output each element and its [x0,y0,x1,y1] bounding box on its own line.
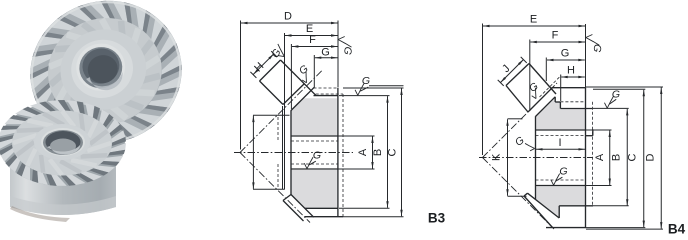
bottom gear teeth ring [0,102,125,186]
B3 hidden root heel line [314,87,338,89]
B4 bore top line [536,129,586,131]
B3 pitch cone line lower [240,153,310,223]
B4 bore ext bottom [586,185,612,187]
B3 pitch diameter dimension [252,116,254,189]
B4 dimension F [530,41,585,43]
B4 section fill upper [536,98,585,129]
B3 tip heel ext right [343,87,404,89]
top gear bore [71,38,130,95]
B4 extension G left [545,58,547,82]
B3 tooth tip line [260,60,281,81]
B4 tooth tip line [506,64,529,86]
B4 hub shoulder [555,101,560,103]
B4 hidden hub right face [592,102,594,206]
B3 hidden tip heel line [316,93,343,95]
B3 back cone line [291,87,314,110]
svg-text:G: G [321,46,330,58]
B4 dimension C [643,90,645,227]
B4 dimension J [501,60,524,83]
B3 pitch cone line upper [240,71,322,153]
B4 top face [552,87,586,89]
B3 extension apex [240,21,242,150]
svg-text:B3: B3 [428,211,446,226]
B3 hub left face [290,110,292,195]
svg-text:F: F [552,30,559,42]
svg-text:D: D [645,153,657,161]
B3 finish mark bore [304,157,313,169]
B3 right face [337,88,339,217]
B4 hub bottom face [559,205,593,207]
B3 hidden bore line lower [291,163,338,165]
B4 shoulder stub upper [554,97,556,102]
B3 lower back cone line [291,195,314,218]
svg-text:B: B [372,149,384,156]
B3 section fill upper [292,98,337,135]
B3 pitch ext bottom [253,188,285,190]
B3 toe face [260,81,284,105]
B4 finish mark tooth flank [529,88,540,100]
B4 extension H left [560,75,562,102]
B4 bore ext top [586,129,612,131]
B4 toe face [506,86,528,113]
B4 axis centerline [479,157,593,159]
B3 root line [283,84,305,105]
B4 finish mark hub top [604,97,613,109]
B3 extension G left [313,55,315,88]
B4 dimension D [660,88,662,229]
B3 bottom root face [305,207,339,209]
B3 bottom tip face [305,216,344,218]
svg-text:A: A [357,148,369,156]
B4 lower step vertical [558,206,560,218]
B4 pitch cone line upper [483,83,558,158]
B4 hidden bore line upper [536,135,586,137]
B3 bore ext bottom [339,168,375,170]
B3 bore top line [291,135,338,137]
B4 gear left face [535,116,537,199]
B4 extension apex [482,24,484,156]
B3 dimension C [401,89,403,217]
B3 axis centerline [234,152,353,154]
B4 hub bottom ext right [593,205,629,207]
B4 finish mark bore [551,174,560,186]
B3 hidden bore end upper [277,117,279,141]
B3 dimension G top [315,57,338,59]
B3 drawing: miter gear section [234,11,446,226]
B4 hub top ext right [593,107,629,109]
B4 tip heel ext right [586,86,663,88]
B3 top face [314,95,339,97]
svg-text:H: H [567,65,575,77]
B3 finish mark tooth flank [300,72,311,84]
B4 finish mark hub left [525,143,535,150]
B4 back cone line [536,97,556,117]
B4 root heel ext right [593,88,645,90]
svg-text:G: G [559,166,567,178]
B4 bottom tip ext right [586,227,645,229]
B4 right face ext [585,24,587,88]
B4 bottom ext outer [586,228,663,230]
photo of two miter gears [0,0,197,222]
B3 finish mark tooth tip [272,44,288,59]
B3 finish mark right face [338,36,352,47]
B4 lower band cap [524,193,528,196]
B4 section fill lower [536,186,585,217]
B3 dimension D [241,22,338,24]
B3 extension F left [290,44,292,109]
B4 extension F left [529,40,531,112]
B3 bore bottom line [291,168,338,170]
B4 dimension G [547,59,585,61]
B3 lower band cap [283,195,291,201]
B4 dimension E [483,25,585,27]
svg-text:F: F [309,34,316,46]
B3 hidden bore end lower [277,164,279,188]
B4 lower tip line [524,196,553,228]
svg-text:C: C [627,153,639,161]
B4 dimension K [507,119,509,195]
top gear [15,0,197,159]
B4 right face [585,88,587,228]
B4 lower back cone line [528,193,560,218]
B3 lower root line [283,201,304,222]
B3 bottom root ext right [339,207,390,209]
B3 section fill lower [292,170,337,208]
B3 dimension F [292,46,338,48]
B4 dimension A [609,131,611,186]
svg-text:B4: B4 [668,222,686,237]
svg-text:A: A [594,153,606,161]
B4 drawing: miter gear with hub section [479,14,686,237]
B3 dimension A [372,137,374,169]
B3 hidden bore line upper [291,140,338,142]
B3 extension E left [284,33,286,190]
B4 dimension H [561,76,585,78]
svg-text:D: D [284,11,292,23]
B4 hidden tip diagonal [540,76,562,98]
svg-text:C: C [386,148,398,156]
B4 hidden bore line lower [536,179,586,181]
svg-text:G: G [313,150,321,162]
B4 bore bottom line [536,185,586,187]
B3 extension lower cap [282,106,284,190]
svg-text:G: G [612,89,620,101]
B3 pitch ext top [253,114,290,116]
B4 K ext top [508,118,523,120]
B4 hidden root heel line [560,101,584,103]
svg-text:K: K [491,153,503,161]
B3 extension right top [337,21,339,88]
B3 dimension B [387,96,389,208]
svg-text:B: B [611,154,623,161]
bottom gear top face [12,111,112,176]
B3 bore ext top [339,135,375,137]
B3 hidden heel edge vertical [342,94,344,217]
B3 heel face [281,60,316,95]
B4 K ext bottom [508,195,527,197]
B4 root line [528,88,552,112]
svg-text:E: E [530,14,537,26]
B3 dimension H [253,54,274,75]
B4 hub top face [560,108,592,110]
B4 pitch cone line lower [483,158,555,230]
B4 dimension I [536,148,585,150]
B4 heel face [529,64,556,95]
bottom gear bore [41,128,85,156]
svg-text:G: G [561,48,570,60]
B4 dimension B [626,109,628,206]
B4 hub left face stub [559,102,561,109]
svg-text:I: I [558,137,561,149]
B4 bottom tip face [546,227,586,229]
bottom gear under-rim shadow [4,150,120,182]
svg-text:G: G [362,75,370,87]
B3 root face ext right [339,95,390,97]
B4 finish mark right face [586,34,600,45]
B4 bore step corner [586,135,593,137]
B3 dimension E [285,35,338,37]
B3 bottom tip ext right [343,216,404,218]
B3 finish mark top face [355,84,364,96]
